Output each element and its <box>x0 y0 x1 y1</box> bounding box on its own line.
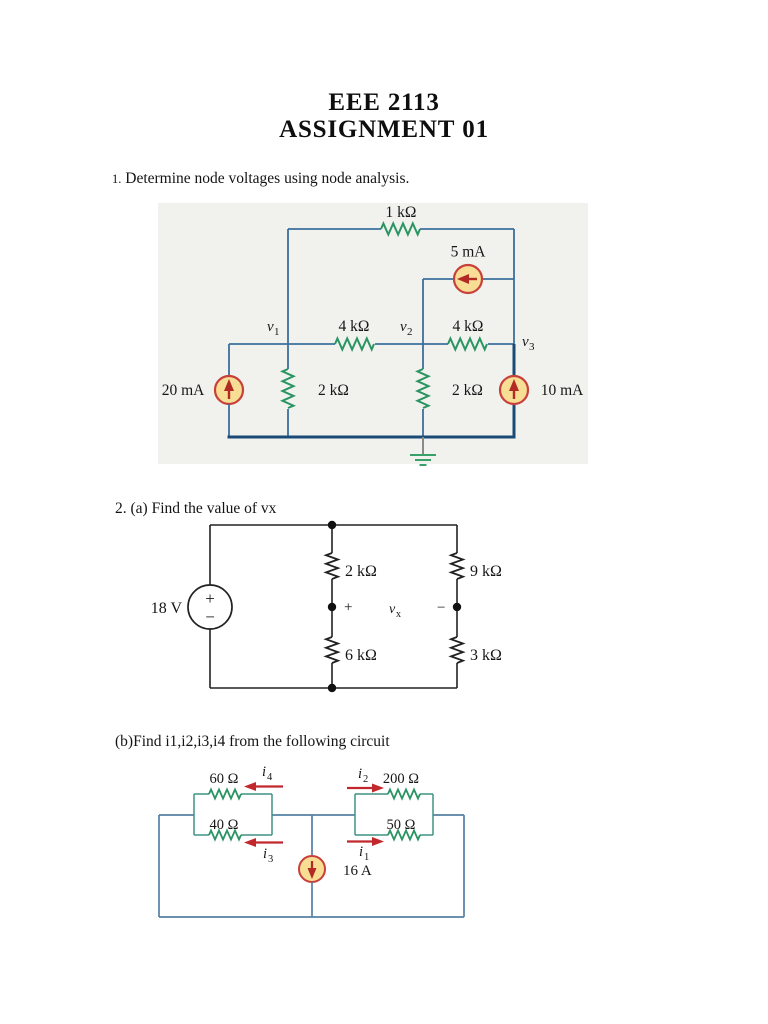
wire v2 vertical (middle to resistor) <box>422 344 424 369</box>
svg-text:3 kΩ: 3 kΩ <box>470 647 502 664</box>
right parallel box <box>355 794 433 835</box>
wire outer rectangle <box>159 815 464 917</box>
svg-text:60 Ω: 60 Ω <box>210 771 239 787</box>
resistor 60 ohm <box>209 790 241 799</box>
resistor 3 kohm <box>451 637 463 663</box>
voltage source 18 V <box>188 585 232 629</box>
circuit 2 <box>140 505 520 705</box>
wire v1 vertical lower <box>287 409 289 438</box>
svg-text:5 mA: 5 mA <box>451 244 487 261</box>
junction node middle <box>328 603 336 611</box>
svg-text:i: i <box>263 846 267 862</box>
resistor 9 kohm <box>451 553 463 579</box>
svg-text:40 Ω: 40 Ω <box>210 817 239 833</box>
arrow i4 <box>244 782 283 791</box>
wire middle (v1 to v3) <box>229 343 514 345</box>
junction node bottom <box>328 684 336 692</box>
resistor 50 ohm <box>388 831 420 840</box>
resistor 2 kohm <box>326 553 338 579</box>
wire bottom (dark) <box>228 436 516 439</box>
wire v2 riser <box>422 279 424 344</box>
svg-text:9 kΩ: 9 kΩ <box>470 563 502 580</box>
svg-text:6 kΩ: 6 kΩ <box>345 647 377 664</box>
label i3 <box>263 846 273 865</box>
wire top <box>210 524 457 526</box>
problem 1 text <box>112 170 409 188</box>
resistor 2 kohm (v2 branch) <box>418 369 429 408</box>
svg-text:+: + <box>205 589 215 608</box>
problem 2a text <box>115 500 276 518</box>
svg-text:3: 3 <box>529 341 535 353</box>
wire bottom <box>210 687 457 689</box>
problem 2b text <box>115 733 390 751</box>
svg-text:i: i <box>359 844 363 860</box>
resistor 4 kohm (v1-v2) <box>335 339 374 350</box>
svg-text:v: v <box>389 602 396 617</box>
wire top (v1 to v3) <box>288 228 514 230</box>
resistor 6 kohm <box>326 637 338 663</box>
junction node right <box>453 603 461 611</box>
wire v2 vertical lower <box>422 409 424 438</box>
wire v1 vertical upper <box>287 229 289 369</box>
wire 5 mA branch horizontal <box>423 278 514 280</box>
wire right outer upper <box>513 229 515 344</box>
svg-text:18 V: 18 V <box>151 600 183 617</box>
svg-text:1 kΩ: 1 kΩ <box>386 204 417 221</box>
svg-text:−: − <box>205 608 215 627</box>
wire middle branch upper <box>311 815 313 856</box>
svg-text:1: 1 <box>274 326 280 338</box>
svg-text:i: i <box>262 764 266 780</box>
svg-text:2: 2 <box>407 326 413 338</box>
label i1 <box>359 844 369 863</box>
svg-text:2 kΩ: 2 kΩ <box>318 382 349 399</box>
svg-text:16 A: 16 A <box>343 863 372 879</box>
label i2 <box>358 766 368 785</box>
resistor 200 ohm <box>388 790 420 799</box>
svg-text:4 kΩ: 4 kΩ <box>453 318 484 335</box>
resistor 2 kohm (v1 branch) <box>283 369 294 408</box>
wire left outer upper <box>228 344 230 376</box>
circuit 1 <box>150 200 590 468</box>
svg-text:v: v <box>400 319 407 335</box>
wire left outer lower <box>228 404 230 438</box>
label i4 <box>262 764 273 783</box>
circuit 3 <box>140 750 580 930</box>
svg-text:i: i <box>358 766 362 782</box>
left parallel box <box>194 794 272 835</box>
current source 16 A <box>299 856 325 882</box>
svg-text:4: 4 <box>267 772 273 783</box>
arrow i3 <box>244 838 283 847</box>
svg-text:2 kΩ: 2 kΩ <box>345 563 377 580</box>
label vx <box>389 602 401 620</box>
svg-text:50 Ω: 50 Ω <box>387 817 416 833</box>
current source 10 mA <box>500 376 528 404</box>
wire right branch <box>456 525 458 688</box>
svg-text:x: x <box>396 609 401 620</box>
resistor 1 kohm (top) <box>381 224 420 235</box>
resistor 4 kohm (v2-v3) <box>448 339 487 350</box>
svg-text:4 kΩ: 4 kΩ <box>339 318 370 335</box>
current source 20 mA <box>215 376 243 404</box>
node label v3 <box>522 334 535 353</box>
svg-text:+: + <box>344 600 352 616</box>
wire right outer lower (dark) <box>513 344 516 438</box>
arrow i1 <box>347 837 384 846</box>
wire left lower <box>209 629 211 688</box>
current source 5 mA <box>454 265 482 293</box>
node label v2 <box>400 319 413 338</box>
wire left upper <box>209 525 211 585</box>
svg-text:v: v <box>522 334 529 350</box>
ground <box>410 437 436 465</box>
svg-text:v: v <box>267 319 274 335</box>
svg-text:10 mA: 10 mA <box>541 382 584 399</box>
title <box>0 90 768 143</box>
wire middle branch lower <box>311 882 313 917</box>
junction node top <box>328 521 336 529</box>
svg-text:1: 1 <box>364 852 369 863</box>
svg-text:200 Ω: 200 Ω <box>383 771 419 787</box>
svg-text:2: 2 <box>363 774 368 785</box>
wire middle branch <box>331 525 333 688</box>
svg-text:20 mA: 20 mA <box>162 382 205 399</box>
arrow i2 <box>347 784 384 793</box>
resistor 40 ohm <box>209 831 241 840</box>
svg-text:2 kΩ: 2 kΩ <box>452 382 483 399</box>
svg-text:3: 3 <box>268 854 273 865</box>
node label v1 <box>267 319 280 338</box>
svg-text:−: − <box>437 600 445 616</box>
